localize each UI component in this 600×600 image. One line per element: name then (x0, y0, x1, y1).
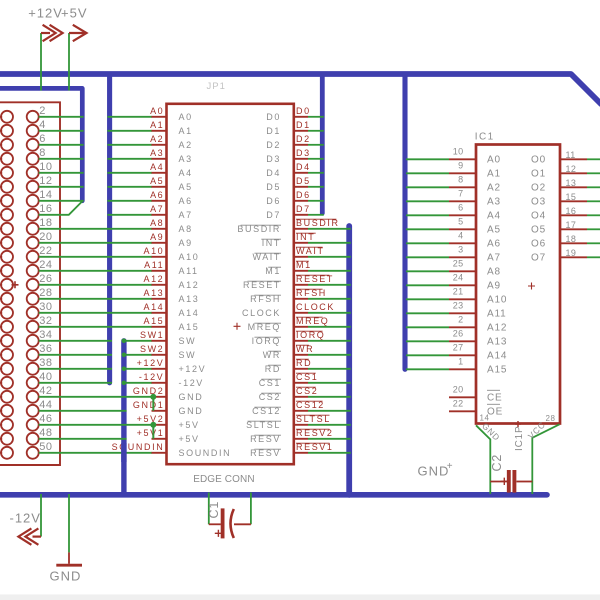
JP1 inside pin names left column (179, 112, 232, 458)
svg-text:46: 46 (39, 413, 52, 425)
svg-text:A9: A9 (487, 281, 501, 292)
svg-text:28: 28 (39, 287, 52, 299)
connector SV1 box outline (cut off at left image edge) (0, 102, 60, 465)
svg-text:8: 8 (458, 175, 463, 185)
bus: vertical from top bus down to -12V row (A0-A7 etc) (107, 76, 112, 383)
svg-text:A0: A0 (487, 155, 501, 166)
capacitor C1 (polarized, below bottom bus) (207, 493, 251, 539)
svg-text:A5: A5 (150, 176, 164, 186)
IC1 GND pin diagonal wire down to bottom bus (476, 425, 490, 494)
svg-text:CE: CE (487, 393, 503, 404)
svg-text:SW1: SW1 (140, 330, 164, 340)
svg-text:16: 16 (566, 206, 577, 216)
svg-text:12: 12 (566, 164, 577, 174)
svg-text:34: 34 (39, 329, 52, 341)
svg-text:22: 22 (39, 245, 52, 257)
svg-text:9: 9 (458, 161, 463, 171)
svg-text:+5V2: +5V2 (137, 414, 165, 424)
junction dots on SW bus at SW1,SW2,+12V,-12V rows (122, 339, 127, 386)
svg-text:A2: A2 (487, 183, 501, 194)
svg-text:A3: A3 (150, 148, 164, 158)
svg-text:SOUNDIN: SOUNDIN (112, 442, 165, 452)
svg-text:23: 23 (453, 301, 464, 311)
svg-text:A10: A10 (143, 246, 164, 256)
wire: +5V supply drop to left spur bus (68, 33, 70, 91)
IC1 right pin numbers (566, 150, 577, 258)
svg-text:A8: A8 (179, 224, 193, 234)
svg-text:21: 21 (453, 287, 464, 297)
wires: pins 2-14 from connector to left spur bus (39, 117, 84, 201)
svg-text:10: 10 (39, 161, 52, 173)
svg-text:A13: A13 (179, 294, 200, 304)
svg-text:25: 25 (453, 259, 464, 269)
IC1 left pin numbers (453, 147, 464, 409)
bus: vertical for IC1 address lines from top bus (402, 76, 407, 369)
svg-text:A9: A9 (150, 232, 164, 242)
svg-text:D6: D6 (266, 196, 281, 206)
svg-text:-12V: -12V (10, 510, 41, 525)
svg-text:+5V: +5V (61, 6, 88, 21)
svg-text:D7: D7 (266, 210, 281, 220)
svg-text:14: 14 (39, 189, 52, 201)
connector SV1 origin cross (12, 281, 19, 288)
svg-text:D0: D0 (296, 106, 311, 116)
svg-text:4: 4 (39, 119, 46, 131)
svg-text:4: 4 (458, 231, 463, 241)
svg-text:O6: O6 (531, 239, 546, 250)
svg-text:22: 22 (453, 399, 464, 409)
svg-text:6: 6 (39, 133, 46, 145)
svg-text:A6: A6 (487, 239, 501, 250)
svg-text:A10: A10 (179, 252, 200, 262)
svg-text:20: 20 (453, 385, 464, 395)
svg-text:A12: A12 (487, 323, 507, 334)
svg-text:CLOCK: CLOCK (242, 308, 281, 318)
supply symbol +12V (double chevron) (41, 25, 63, 41)
svg-text:A13: A13 (143, 288, 164, 298)
IC1 VCC pin diagonal wire down to bottom bus (532, 424, 559, 494)
svg-text:O4: O4 (531, 211, 546, 222)
svg-text:38: 38 (39, 357, 52, 369)
svg-text:D4: D4 (296, 162, 311, 172)
svg-text:A4: A4 (150, 162, 164, 172)
svg-text:2: 2 (458, 315, 463, 325)
capacitor C2 (decoupling, between IC1 power drops) (490, 454, 533, 493)
svg-text:A15: A15 (487, 365, 507, 376)
svg-text:SW2: SW2 (140, 344, 164, 354)
svg-text:+5V: +5V (179, 420, 200, 430)
svg-text:44: 44 (39, 399, 52, 411)
svg-text:SOUNDIN: SOUNDIN (179, 448, 232, 458)
svg-text:A2: A2 (150, 134, 164, 144)
svg-text:D1: D1 (266, 126, 281, 136)
svg-text:18: 18 (566, 234, 577, 244)
svg-text:+5V: +5V (179, 434, 200, 444)
connector JP1 (EDGE CONN) body (167, 104, 294, 464)
svg-text:1: 1 (458, 357, 463, 367)
bus: vertical for D0-D7 from top bus (320, 76, 325, 213)
svg-text:A4: A4 (179, 168, 193, 178)
svg-text:A13: A13 (487, 337, 507, 348)
svg-text:7: 7 (458, 189, 463, 199)
svg-text:D5: D5 (296, 176, 311, 186)
IC1 inside pin names (487, 155, 507, 418)
svg-text:SW: SW (179, 336, 197, 346)
svg-text:A11: A11 (179, 266, 199, 276)
svg-text:28: 28 (546, 414, 556, 423)
wire: +12V supply drop to left spur bus (40, 33, 42, 91)
svg-text:+12V: +12V (137, 358, 165, 368)
svg-text:-12V: -12V (179, 378, 204, 388)
svg-text:A3: A3 (179, 154, 193, 164)
svg-text:GND: GND (418, 463, 450, 478)
svg-text:40: 40 (39, 371, 52, 383)
svg-text:20: 20 (39, 231, 52, 243)
svg-text:A3: A3 (487, 197, 501, 208)
svg-text:IC1P: IC1P (514, 426, 525, 451)
svg-text:6: 6 (458, 203, 463, 213)
svg-text:+5V1: +5V1 (137, 428, 165, 438)
svg-text:A10: A10 (487, 295, 507, 306)
svg-text:D6: D6 (296, 190, 311, 200)
svg-text:30: 30 (39, 301, 52, 313)
svg-text:17: 17 (566, 220, 577, 230)
svg-text:13: 13 (566, 178, 577, 188)
svg-text:A11: A11 (144, 260, 164, 270)
svg-text:5: 5 (458, 217, 463, 227)
svg-text:D7: D7 (296, 204, 311, 214)
wires: IC1 outputs to right image edge (587, 159, 600, 257)
svg-text:A6: A6 (179, 196, 193, 206)
bus: re-stroke of SW bus segment crossing SOUNDIN label (121, 443, 126, 462)
wires: A0-A7 rows from vertical bus to JP1 pins (107, 117, 152, 215)
svg-text:10: 10 (453, 147, 464, 157)
junction link wires redraw (over labels) (152, 397, 154, 439)
svg-text:+12V: +12V (179, 364, 207, 374)
svg-text:15: 15 (566, 192, 577, 202)
svg-text:-12V: -12V (139, 372, 164, 382)
svg-text:D2: D2 (296, 134, 311, 144)
svg-text:D0: D0 (266, 112, 281, 122)
supply symbol -12V (double chevron pointing left) (18, 528, 41, 544)
connector SV1 pin circles (two columns) and stubs (0, 111, 39, 459)
svg-text:27: 27 (453, 343, 464, 353)
svg-text:19: 19 (566, 248, 577, 258)
junction dot +5V2 pin and link wire down to +5V1 pin (150, 422, 156, 428)
JP1 right pin stubs (293, 117, 308, 453)
svg-text:O1: O1 (531, 169, 546, 180)
svg-text:IC1: IC1 (475, 131, 495, 142)
svg-text:GND: GND (179, 392, 204, 402)
svg-text:16: 16 (39, 203, 52, 215)
svg-text:A12: A12 (143, 274, 164, 284)
svg-text:A2: A2 (179, 140, 193, 150)
svg-text:18: 18 (39, 217, 52, 229)
svg-text:GND2: GND2 (133, 386, 164, 396)
svg-text:A1: A1 (150, 120, 164, 130)
JP1 left pin stubs (152, 117, 168, 453)
JP1 left red pin labels (112, 106, 165, 452)
svg-text:A6: A6 (150, 190, 164, 200)
svg-text:24: 24 (39, 259, 52, 271)
svg-text:26: 26 (39, 273, 52, 285)
IC1 left pin stubs A0-A15 and CE/OE (449, 159, 477, 411)
connector SV1 even pin numbers 2..50 (39, 105, 52, 453)
svg-text:A14: A14 (143, 302, 164, 312)
svg-text:A5: A5 (487, 225, 501, 236)
bus: left spur entering at left edge, corner, vertical down (pins 2-16 net) (0, 88, 82, 200)
wires: D0-D7 from JP1 to data bus (308, 117, 324, 215)
svg-text:A5: A5 (179, 182, 193, 192)
svg-text:O0: O0 (531, 155, 546, 166)
svg-text:A7: A7 (487, 253, 501, 264)
svg-text:A14: A14 (179, 308, 200, 318)
svg-text:A7: A7 (179, 210, 193, 220)
svg-text:A11: A11 (487, 309, 506, 320)
svg-text:48: 48 (39, 427, 52, 439)
bus: vertical control-signal bus from BUSDIR row to bottom bus (346, 226, 352, 495)
svg-text:A9: A9 (179, 238, 193, 248)
IC1 right pin stubs O0-O7 (560, 159, 588, 257)
svg-text:12: 12 (39, 175, 52, 187)
svg-text:A15: A15 (143, 316, 164, 326)
bus: vertical from SW1 row down to bottom bus (121, 341, 126, 495)
JP1 origin cross (234, 323, 241, 330)
supply symbol +5V (arrow) (69, 25, 87, 41)
svg-text:D2: D2 (266, 140, 281, 150)
svg-text:26: 26 (453, 329, 464, 339)
JP1 right red pin labels (with overlines) (296, 106, 340, 452)
svg-text:A14: A14 (487, 351, 507, 362)
svg-text:C2: C2 (490, 454, 504, 472)
svg-text:O3: O3 (531, 197, 546, 208)
svg-text:SW: SW (179, 350, 197, 360)
svg-text:A4: A4 (487, 211, 501, 222)
svg-text:8: 8 (39, 147, 46, 159)
svg-text:A8: A8 (487, 267, 501, 278)
svg-text:36: 36 (39, 343, 52, 355)
svg-text:A12: A12 (179, 280, 200, 290)
svg-text:32: 32 (39, 315, 52, 327)
wires: IC1 address pins to bus (406, 159, 449, 369)
svg-text:C1: C1 (207, 501, 221, 519)
svg-text:3: 3 (458, 245, 463, 255)
svg-text:CLOCK: CLOCK (296, 302, 335, 312)
wires: control signals from JP1 to control bus (308, 229, 351, 453)
wire: -12V drop from bottom bus (40, 494, 42, 537)
svg-text:O7: O7 (531, 253, 546, 264)
svg-text:A15: A15 (179, 322, 200, 332)
svg-text:D5: D5 (266, 182, 281, 192)
junction dot GND2 pin and link wire down to GND1 pin (150, 394, 156, 400)
svg-text:50: 50 (39, 441, 52, 453)
svg-text:GND1: GND1 (133, 400, 164, 410)
svg-text:A0: A0 (179, 112, 193, 122)
ground symbol GND (56, 552, 82, 565)
IC1 origin cross (528, 283, 535, 290)
svg-text:A1: A1 (179, 126, 193, 136)
decorative: bottom page edge strip (0, 594, 600, 600)
svg-text:GND: GND (179, 406, 204, 416)
svg-text:D3: D3 (296, 148, 311, 158)
svg-text:JP1: JP1 (207, 81, 226, 92)
svg-text:A8: A8 (150, 218, 164, 228)
svg-text:+: + (447, 461, 453, 472)
bus: bottom horizontal GND bus (0, 492, 547, 498)
IC U1: IC1 27C512 EPROM body (476, 145, 560, 424)
svg-text:+12V: +12V (28, 6, 63, 21)
svg-text:O2: O2 (531, 183, 546, 194)
svg-text:42: 42 (39, 385, 52, 397)
JP1 inside pin names right column (with overlines) (237, 112, 281, 458)
svg-text:A7: A7 (150, 204, 164, 214)
bus: top horizontal GND/main bus with 45-deg bend to right edge (0, 74, 600, 104)
wire: pin 16 with 45-deg dogleg up to bus end (39, 201, 83, 215)
wire: GND drop from bottom bus (68, 494, 70, 552)
svg-text:A1: A1 (487, 169, 501, 180)
svg-text:O5: O5 (531, 225, 546, 236)
svg-text:EDGE CONN: EDGE CONN (193, 474, 254, 485)
svg-text:A0: A0 (150, 106, 164, 116)
svg-text:2: 2 (39, 105, 46, 117)
svg-text:D1: D1 (296, 120, 311, 130)
wires: pins 18-50 rows running from connector toward JP1 (39, 229, 152, 453)
wires: SW1,SW2,+12V,-12V rows from SW bus to JP1 pins (122, 341, 152, 383)
svg-text:D3: D3 (266, 154, 281, 164)
svg-text:D4: D4 (266, 168, 281, 178)
svg-text:GND: GND (50, 568, 82, 583)
svg-text:24: 24 (453, 273, 464, 283)
svg-text:11: 11 (566, 150, 576, 160)
